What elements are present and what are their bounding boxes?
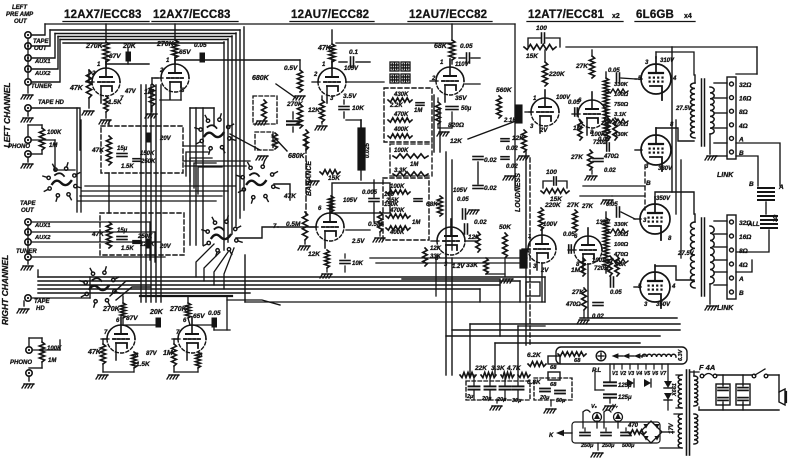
svg-text:1M: 1M — [49, 143, 58, 149]
svg-text:0.05: 0.05 — [608, 68, 620, 74]
svg-text:HD: HD — [36, 306, 45, 312]
svg-text:1M: 1M — [571, 267, 581, 274]
svg-text:12AU7/ECC82: 12AU7/ECC82 — [291, 9, 369, 21]
svg-text:500μ: 500μ — [622, 443, 635, 449]
svg-text:2.1K: 2.1K — [503, 118, 517, 124]
svg-text:20μ: 20μ — [481, 396, 492, 402]
svg-text:3.1K: 3.1K — [614, 112, 627, 118]
svg-text:50μ: 50μ — [461, 106, 472, 112]
svg-text:V7: V7 — [660, 371, 666, 377]
svg-text:0.05: 0.05 — [457, 197, 469, 203]
svg-text:47K: 47K — [91, 147, 105, 154]
svg-text:RIGHT CHANNEL: RIGHT CHANNEL — [0, 255, 10, 325]
svg-text:470Ω: 470Ω — [603, 154, 619, 160]
svg-text:6.2K: 6.2K — [527, 352, 542, 359]
svg-text:270K: 270K — [156, 41, 175, 48]
svg-text:B: B — [646, 180, 651, 187]
svg-text:12AU7/ECC82: 12AU7/ECC82 — [409, 9, 487, 21]
svg-text:0.05: 0.05 — [568, 100, 580, 106]
svg-text:47K: 47K — [69, 85, 84, 92]
svg-text:AUX2: AUX2 — [34, 71, 51, 77]
svg-text:1M: 1M — [414, 108, 423, 114]
svg-text:105V: 105V — [343, 198, 358, 204]
svg-text:1M: 1M — [410, 162, 419, 168]
svg-text:4Ω: 4Ω — [738, 262, 748, 269]
svg-text:P.L: P.L — [592, 367, 601, 374]
svg-text:2.5V: 2.5V — [351, 239, 365, 245]
svg-text:27K: 27K — [575, 63, 589, 70]
svg-text:0.02: 0.02 — [484, 185, 497, 192]
svg-text:30μ: 30μ — [512, 398, 522, 404]
svg-text:2.2K: 2.2K — [389, 103, 403, 109]
svg-text:PHONO: PHONO — [10, 360, 32, 366]
svg-text:250K: 250K — [140, 159, 156, 165]
svg-text:0.1: 0.1 — [349, 49, 358, 56]
svg-text:AUX2: AUX2 — [34, 235, 51, 241]
svg-text:250μ: 250μ — [601, 443, 615, 449]
svg-text:TAPE: TAPE — [33, 39, 50, 45]
svg-text:x4: x4 — [684, 13, 692, 20]
svg-text:100: 100 — [546, 169, 557, 176]
svg-text:4: 4 — [671, 284, 676, 290]
svg-text:x2: x2 — [612, 13, 620, 20]
svg-text:10K: 10K — [352, 105, 365, 112]
svg-text:87V: 87V — [109, 53, 121, 60]
svg-text:250μ: 250μ — [580, 443, 594, 449]
svg-text:150K: 150K — [140, 151, 155, 157]
svg-text:ALL: ALL — [747, 222, 760, 228]
svg-text:68: 68 — [574, 358, 581, 364]
svg-text:12AX7/ECC83: 12AX7/ECC83 — [153, 9, 231, 21]
svg-text:0.02: 0.02 — [506, 164, 518, 170]
svg-text:330K: 330K — [614, 222, 629, 228]
svg-text:X661: X661 — [672, 383, 678, 397]
svg-text:330K: 330K — [614, 132, 629, 138]
svg-text:LEFT CHANNEL: LEFT CHANNEL — [2, 82, 12, 147]
svg-text:35V: 35V — [455, 95, 467, 102]
svg-text:65V: 65V — [179, 49, 191, 56]
svg-text:B: B — [739, 290, 744, 297]
svg-text:125μ: 125μ — [618, 395, 632, 401]
svg-text:47K: 47K — [87, 349, 102, 356]
svg-text:15μ: 15μ — [117, 228, 128, 234]
svg-text:AUX1: AUX1 — [34, 223, 50, 229]
svg-text:TAPE HD: TAPE HD — [38, 100, 65, 106]
svg-text:4: 4 — [672, 76, 677, 82]
svg-text:1M: 1M — [412, 220, 421, 226]
svg-text:B: B — [749, 181, 754, 188]
svg-text:4.7K: 4.7K — [506, 365, 522, 372]
svg-text:AUX1: AUX1 — [34, 59, 50, 65]
svg-text:F 4A: F 4A — [699, 363, 715, 372]
svg-text:V5: V5 — [644, 371, 650, 377]
svg-text:125μ: 125μ — [618, 383, 632, 389]
svg-text:100: 100 — [536, 25, 547, 32]
svg-text:3.5V: 3.5V — [343, 93, 357, 100]
svg-text:100Ω: 100Ω — [614, 242, 629, 248]
svg-text:LINK: LINK — [717, 172, 734, 179]
svg-text:0.02: 0.02 — [474, 219, 487, 226]
svg-text:68K: 68K — [434, 43, 448, 50]
svg-text:V6: V6 — [652, 371, 658, 377]
svg-text:1M: 1M — [48, 358, 57, 364]
svg-text:12AT7/ECC81: 12AT7/ECC81 — [528, 9, 605, 21]
svg-text:0.02: 0.02 — [484, 157, 497, 164]
svg-text:4Ω: 4Ω — [738, 123, 748, 130]
svg-text:65V: 65V — [193, 313, 205, 320]
svg-text:87V: 87V — [126, 315, 138, 322]
svg-text:47K: 47K — [91, 231, 105, 238]
svg-text:6L6GB: 6L6GB — [636, 9, 674, 21]
svg-text:220K: 220K — [548, 71, 566, 78]
svg-text:470K: 470K — [393, 112, 409, 118]
svg-text:350V: 350V — [656, 196, 671, 202]
svg-text:12K: 12K — [512, 135, 525, 142]
svg-text:68K: 68K — [426, 201, 439, 208]
svg-text:8Ω: 8Ω — [739, 109, 748, 116]
svg-text:0.05: 0.05 — [208, 310, 221, 317]
svg-text:100K: 100K — [390, 184, 405, 190]
svg-text:12AX7/ECC83: 12AX7/ECC83 — [64, 9, 142, 21]
svg-text:2: 2 — [431, 76, 436, 82]
svg-text:0.05: 0.05 — [460, 43, 473, 50]
svg-text:TUNER: TUNER — [16, 249, 37, 255]
svg-text:12K: 12K — [308, 107, 321, 114]
svg-text:PHONO: PHONO — [8, 144, 30, 150]
svg-text:110V: 110V — [455, 62, 470, 68]
svg-text:33K: 33K — [430, 254, 442, 260]
svg-text:270K: 270K — [102, 306, 121, 313]
svg-text:32Ω: 32Ω — [739, 82, 751, 89]
svg-text:87V: 87V — [146, 351, 158, 357]
svg-text:1.5K: 1.5K — [121, 246, 134, 252]
svg-text:0.025: 0.025 — [365, 142, 371, 158]
svg-text:560K: 560K — [496, 87, 513, 94]
svg-text:0.05: 0.05 — [194, 42, 207, 49]
svg-text:50K: 50K — [499, 224, 512, 231]
svg-text:2V: 2V — [539, 128, 548, 134]
svg-text:3.3K: 3.3K — [491, 365, 506, 372]
svg-text:TAPE: TAPE — [34, 299, 51, 305]
svg-text:6.3V: 6.3V — [678, 348, 684, 361]
svg-text:3Ω: 3Ω — [773, 214, 779, 222]
svg-text:12K: 12K — [450, 138, 463, 145]
svg-text:16Ω: 16Ω — [739, 234, 751, 241]
svg-text:100: 100 — [384, 192, 395, 198]
svg-text:20K: 20K — [122, 43, 137, 50]
svg-text:270K: 270K — [85, 43, 104, 50]
svg-text:V4: V4 — [636, 371, 642, 377]
svg-text:16Ω: 16Ω — [739, 96, 751, 103]
svg-text:LEFT: LEFT — [12, 5, 28, 11]
svg-text:27K: 27K — [570, 154, 584, 161]
svg-text:270K: 270K — [169, 306, 188, 313]
svg-text:1M: 1M — [144, 89, 154, 96]
svg-text:20μ: 20μ — [539, 395, 550, 401]
svg-text:V3: V3 — [628, 371, 634, 377]
svg-text:10K: 10K — [352, 261, 364, 267]
svg-text:TUNER: TUNER — [31, 84, 52, 90]
svg-text:2: 2 — [313, 72, 318, 78]
svg-text:12K: 12K — [430, 246, 442, 252]
svg-text:330V: 330V — [658, 166, 673, 172]
svg-text:OUT: OUT — [14, 19, 28, 25]
svg-text:V2: V2 — [620, 371, 626, 377]
svg-text:0.5M: 0.5M — [368, 221, 383, 228]
svg-text:220K: 220K — [544, 202, 562, 209]
svg-text:750Ω: 750Ω — [614, 102, 629, 108]
svg-text:68: 68 — [550, 382, 557, 388]
svg-text:BARANCE: BARANCE — [306, 161, 313, 196]
svg-text:310V: 310V — [660, 58, 675, 64]
svg-text:270K: 270K — [286, 101, 304, 108]
svg-text:V1: V1 — [612, 371, 618, 377]
svg-text:2μ: 2μ — [466, 394, 474, 400]
svg-text:470K: 470K — [389, 208, 405, 214]
svg-text:68: 68 — [550, 365, 557, 371]
svg-text:OUT: OUT — [34, 46, 48, 52]
svg-text:27K: 27K — [566, 202, 580, 209]
svg-text:150K: 150K — [384, 202, 399, 208]
svg-text:47V: 47V — [124, 89, 137, 95]
svg-text:LOUDNESS: LOUDNESS — [515, 173, 522, 212]
svg-text:LINK: LINK — [717, 305, 734, 312]
svg-text:V₆: V₆ — [591, 404, 598, 410]
svg-text:0.02: 0.02 — [604, 168, 616, 174]
svg-text:400K: 400K — [393, 127, 409, 133]
svg-text:470Ω: 470Ω — [613, 252, 629, 258]
svg-text:0.005: 0.005 — [362, 190, 378, 196]
svg-text:20μ: 20μ — [496, 397, 507, 403]
svg-text:A: A — [738, 276, 744, 283]
svg-text:0.02: 0.02 — [592, 314, 604, 320]
svg-text:135V: 135V — [596, 220, 611, 226]
svg-text:430K: 430K — [393, 92, 409, 98]
svg-text:680K: 680K — [288, 153, 306, 160]
svg-text:15μ: 15μ — [117, 146, 128, 152]
svg-text:1.5K: 1.5K — [121, 164, 134, 170]
svg-text:0.05: 0.05 — [598, 137, 610, 143]
svg-text:15K: 15K — [526, 53, 539, 60]
svg-text:1.2V: 1.2V — [452, 264, 465, 270]
svg-text:TAPE: TAPE — [20, 201, 37, 207]
svg-text:22K: 22K — [474, 365, 488, 372]
svg-text:350V: 350V — [656, 302, 671, 308]
svg-text:0.5V: 0.5V — [284, 65, 298, 72]
svg-text:680K: 680K — [252, 75, 270, 82]
svg-text:47K: 47K — [317, 45, 332, 52]
svg-text:100K: 100K — [47, 130, 62, 136]
svg-text:470: 470 — [627, 423, 639, 429]
svg-text:1M: 1M — [163, 350, 173, 357]
svg-text:K: K — [549, 433, 554, 439]
svg-text:20K: 20K — [149, 309, 164, 316]
svg-text:0.02: 0.02 — [506, 146, 518, 152]
svg-text:20V: 20V — [159, 136, 172, 142]
svg-text:0.05: 0.05 — [610, 290, 622, 296]
svg-text:12K: 12K — [308, 251, 321, 258]
svg-text:OUT: OUT — [21, 208, 35, 214]
svg-text:PRE AMP: PRE AMP — [6, 12, 34, 18]
svg-text:V₇: V₇ — [612, 404, 619, 410]
svg-text:20V: 20V — [159, 244, 172, 250]
svg-text:15K: 15K — [328, 175, 341, 182]
svg-text:2: 2 — [159, 68, 164, 74]
svg-text:105V: 105V — [453, 188, 468, 194]
svg-text:27K: 27K — [581, 204, 594, 210]
svg-text:100V: 100V — [543, 222, 558, 228]
svg-text:A: A — [778, 184, 784, 191]
svg-text:470Ω: 470Ω — [565, 302, 581, 308]
svg-text:105V: 105V — [344, 66, 359, 72]
svg-text:1.5K: 1.5K — [136, 361, 151, 368]
svg-text:50μ: 50μ — [556, 398, 566, 404]
